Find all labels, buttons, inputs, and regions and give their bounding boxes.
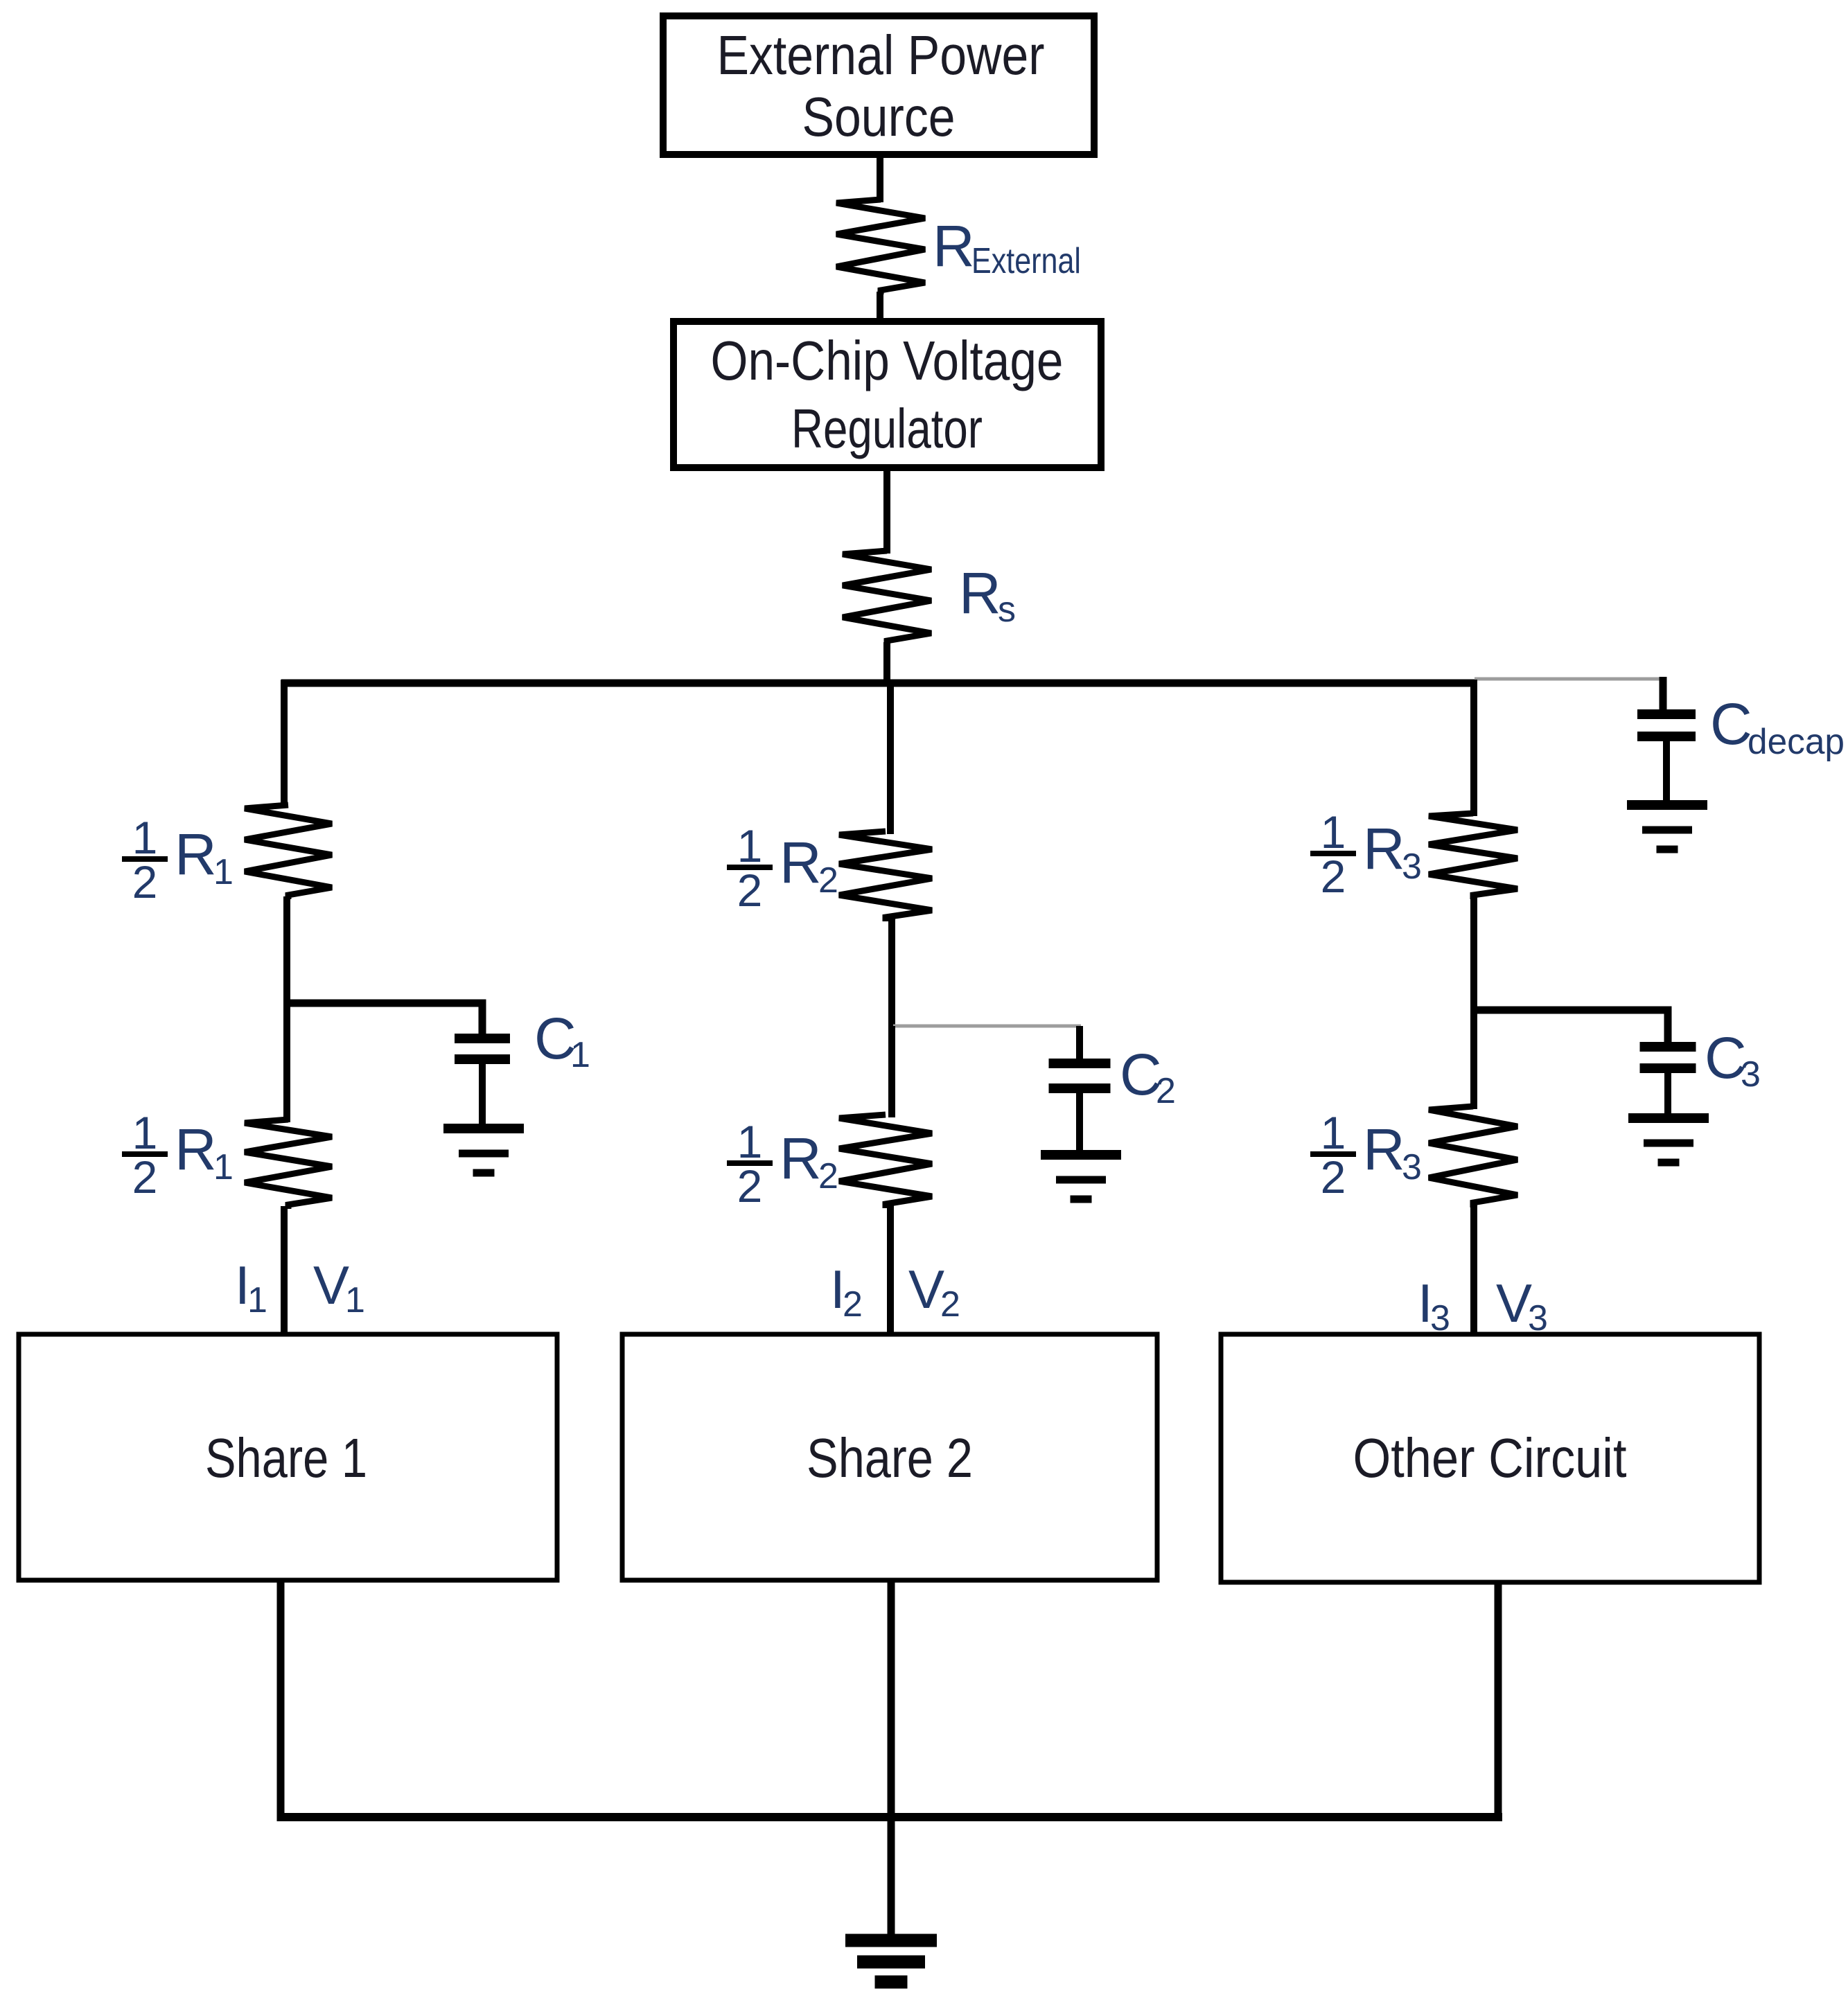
block: External Power Source — [663, 16, 1094, 154]
label R_External — [933, 213, 1081, 281]
svg-text:1: 1 — [213, 852, 234, 892]
wire: rail to half-R1 upper — [281, 680, 288, 808]
svg-text:R: R — [175, 822, 217, 887]
svg-text:2: 2 — [1156, 1071, 1176, 1111]
resistor half R3 upper — [1429, 813, 1517, 899]
svg-text:2: 2 — [818, 1156, 838, 1196]
ground: below Cdecap — [1627, 805, 1707, 849]
svg-text:1: 1 — [132, 812, 158, 863]
svg-text:1: 1 — [247, 1280, 267, 1320]
wire: rail to half-R2 upper — [887, 683, 894, 834]
svg-text:External: External — [971, 241, 1081, 281]
wire: power distribution rail — [281, 680, 1477, 687]
svg-text:External Power: External Power — [717, 24, 1045, 86]
svg-text:1: 1 — [737, 820, 763, 871]
wire: half-R2 upper to node 2 — [888, 919, 895, 1029]
label V1 — [313, 1255, 365, 1320]
wire: node 1 to C1 — [285, 1003, 482, 1035]
wire: Rs to power rail — [883, 642, 890, 683]
wire: Other Circuit to ground bus — [1495, 1582, 1502, 1821]
resistor half R2 lower — [839, 1115, 932, 1208]
ground: below C2 — [1041, 1155, 1121, 1199]
svg-text:R: R — [1363, 816, 1405, 881]
svg-text:3: 3 — [1741, 1054, 1761, 1095]
svg-text:R: R — [1363, 1117, 1405, 1182]
svg-text:2: 2 — [132, 1151, 158, 1203]
svg-text:Share 1: Share 1 — [205, 1427, 367, 1489]
capacitor C2 — [1049, 1063, 1111, 1151]
svg-text:2: 2 — [1321, 1151, 1346, 1203]
ground: below C3 — [1628, 1118, 1709, 1162]
wire: node 2 to C2 (thin gray) — [893, 1026, 1081, 1061]
capacitor C3 — [1640, 1047, 1696, 1118]
svg-text:2: 2 — [843, 1284, 863, 1325]
resistor half R3 lower — [1429, 1106, 1517, 1207]
block: Other Circuit — [1221, 1334, 1759, 1582]
svg-text:Share 2: Share 2 — [807, 1427, 973, 1489]
resistor half R1 lower — [245, 1120, 332, 1209]
label: 1/2 R2 (lower) — [727, 1116, 838, 1212]
svg-text:1: 1 — [213, 1147, 234, 1187]
svg-text:2: 2 — [940, 1284, 960, 1325]
wire: power source to R_External — [877, 154, 883, 202]
block: Share 1 — [19, 1334, 557, 1580]
resistor half R1 upper — [245, 805, 332, 899]
wire: regulator to Rs — [883, 468, 890, 554]
svg-text:decap: decap — [1748, 722, 1845, 762]
svg-text:2: 2 — [737, 865, 763, 916]
svg-text:2: 2 — [737, 1160, 763, 1212]
wire: half-R1 upper to node 1 — [283, 896, 290, 1007]
svg-text:R: R — [933, 213, 975, 278]
svg-text:C: C — [1710, 691, 1752, 756]
svg-text:V: V — [908, 1259, 944, 1320]
svg-text:R: R — [780, 830, 822, 895]
svg-text:On-Chip Voltage: On-Chip Voltage — [711, 330, 1064, 391]
wire: ground bus — [277, 1813, 1502, 1821]
label C3 — [1705, 1025, 1761, 1095]
svg-text:Regulator: Regulator — [791, 398, 983, 459]
svg-text:Other Circuit: Other Circuit — [1353, 1427, 1627, 1489]
svg-text:3: 3 — [1402, 847, 1422, 887]
svg-text:2: 2 — [818, 860, 838, 901]
label Rs — [959, 560, 1016, 630]
wire: Share 1 to ground bus — [277, 1580, 285, 1821]
wire: half-R2 lower to Share 2 — [887, 1205, 894, 1336]
svg-text:R: R — [175, 1117, 217, 1182]
label V3 — [1496, 1273, 1548, 1338]
wire: node 3 to half-R3 lower — [1470, 1010, 1477, 1109]
svg-text:1: 1 — [345, 1280, 365, 1320]
svg-text:1: 1 — [570, 1035, 590, 1075]
label C1 — [534, 1006, 590, 1075]
wire: rail to half-R3 upper — [1470, 680, 1477, 816]
wire: Share 2 to system ground — [888, 1580, 895, 1937]
wire: node 1 to half-R1 lower — [283, 1003, 290, 1122]
label I1 — [235, 1255, 267, 1320]
label C2 — [1120, 1042, 1176, 1111]
label Cdecap — [1710, 691, 1845, 762]
svg-text:V: V — [1496, 1273, 1532, 1334]
label: 1/2 R1 (lower) — [122, 1107, 234, 1203]
wire: node 2 to half-R2 lower — [888, 1026, 895, 1117]
svg-text:V: V — [313, 1255, 349, 1316]
wire: node 3 to C3 — [1472, 1010, 1668, 1043]
label: 1/2 R1 (upper) — [122, 812, 234, 908]
svg-text:s: s — [998, 590, 1016, 630]
svg-text:1: 1 — [1321, 806, 1346, 858]
label: 1/2 R3 (upper) — [1310, 806, 1422, 902]
wire: half-R3 upper to node 3 — [1470, 896, 1477, 1014]
resistor half R2 upper — [839, 831, 932, 921]
svg-text:1: 1 — [737, 1116, 763, 1167]
svg-text:1: 1 — [1321, 1107, 1346, 1158]
svg-text:R: R — [959, 560, 1001, 626]
label I3 — [1418, 1273, 1450, 1338]
capacitor C1 — [455, 1038, 510, 1125]
resistor R_External — [836, 200, 925, 294]
resistor Rs — [843, 551, 931, 645]
label: 1/2 R2 (upper) — [727, 820, 838, 916]
svg-text:3: 3 — [1402, 1147, 1422, 1187]
wire: half-R1 lower to Share 1 — [281, 1206, 288, 1336]
svg-text:2: 2 — [1321, 851, 1346, 902]
wire: R_External to regulator — [877, 292, 883, 324]
ground: system ground — [845, 1940, 937, 1982]
block: On-Chip Voltage Regulator — [674, 321, 1101, 468]
label V2 — [908, 1259, 960, 1325]
svg-text:2: 2 — [132, 856, 158, 908]
svg-text:R: R — [780, 1126, 822, 1191]
wire: rail to Cdecap (thin gray) — [1475, 678, 1663, 681]
svg-text:Source: Source — [802, 86, 956, 148]
wire: Cdecap drop — [1660, 677, 1667, 712]
label I2 — [830, 1259, 863, 1325]
svg-text:1: 1 — [132, 1107, 158, 1158]
ground: below C1 — [443, 1129, 524, 1173]
block: Share 2 — [622, 1334, 1157, 1580]
capacitor Cdecap — [1637, 714, 1696, 805]
label: 1/2 R3 (lower) — [1310, 1107, 1422, 1203]
wire: half-R3 lower to Other Circuit — [1470, 1205, 1477, 1336]
